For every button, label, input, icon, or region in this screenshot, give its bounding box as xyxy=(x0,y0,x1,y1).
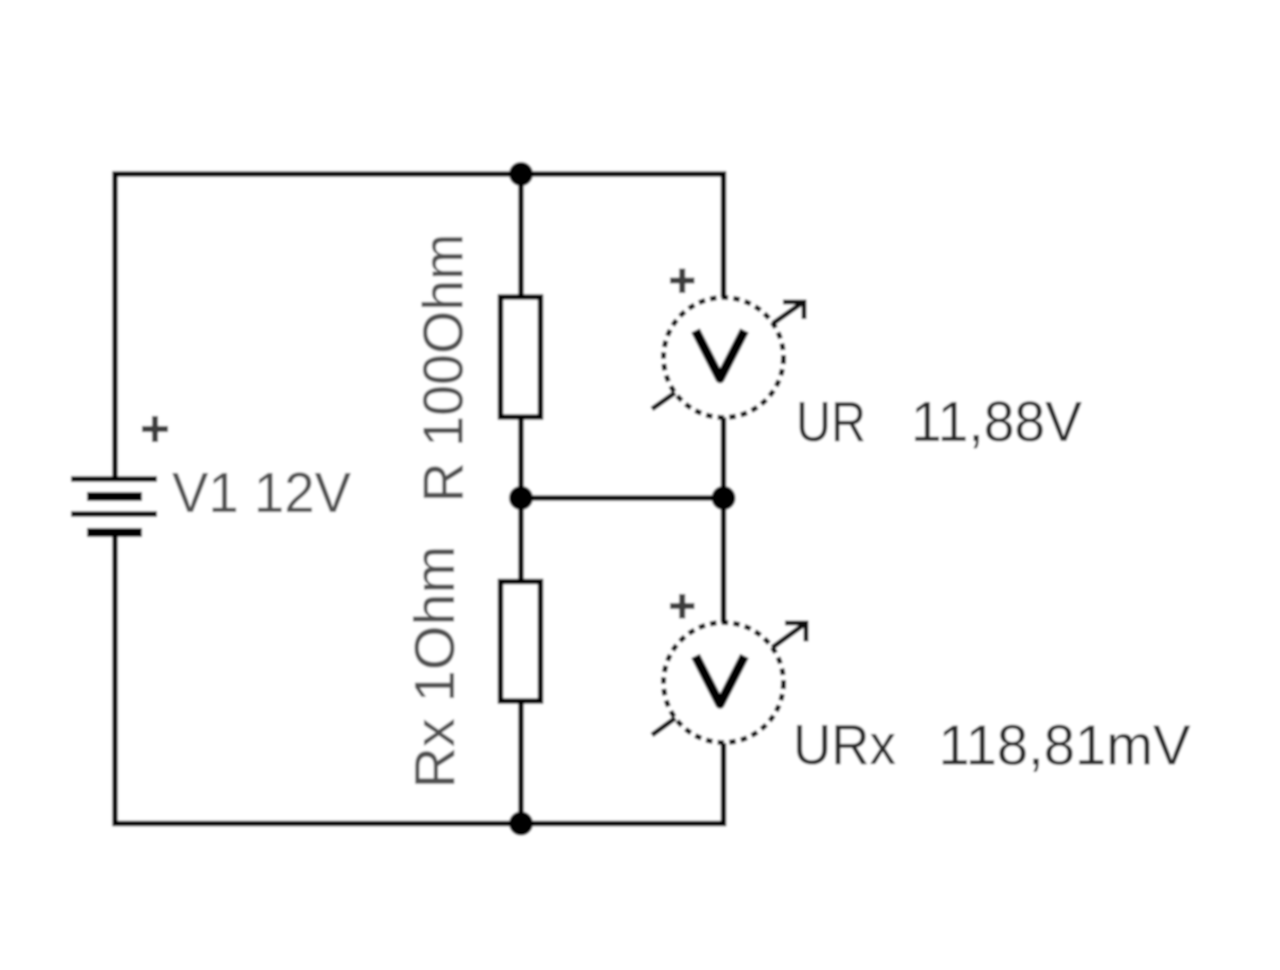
svg-text:V1 12V: V1 12V xyxy=(172,461,351,525)
svg-text:UR: UR xyxy=(796,390,866,454)
wire: middle horizontal between nodes xyxy=(521,495,724,501)
svg-text:URx: URx xyxy=(793,713,896,777)
battery V1 plate 3 (long positive) xyxy=(71,511,157,517)
voltmeter U2 V letter xyxy=(696,656,745,704)
junction node top xyxy=(509,162,533,186)
junction node middle left xyxy=(509,486,533,510)
junction node middle right xyxy=(712,486,736,510)
svg-text:11,88V: 11,88V xyxy=(911,390,1082,454)
voltmeter U1 V letter xyxy=(696,331,745,379)
junction node bottom xyxy=(509,812,533,836)
battery plus sign xyxy=(142,416,168,442)
arrow shaft across voltmeter U2 xyxy=(652,623,806,735)
wire: left + top + right drop to voltmeter U1 xyxy=(115,174,724,477)
voltmeter U1 plus sign xyxy=(670,269,695,294)
arrowhead of voltmeter U2 xyxy=(785,623,806,642)
svg-text:118,81mV: 118,81mV xyxy=(939,714,1191,778)
arrow shaft across voltmeter U1 xyxy=(652,302,804,410)
svg-text:R 100Ohm: R 100Ohm xyxy=(412,234,476,503)
voltmeter U2 body (dashed circle) xyxy=(664,623,784,743)
battery V1 plate 1 (long positive) xyxy=(71,476,157,482)
wire: left bottom + bottom + rise to voltmeter U2 xyxy=(115,535,724,824)
wire: top node to resistor R xyxy=(518,174,524,299)
battery V1 plate 2 (short thick negative) xyxy=(87,492,142,501)
voltmeter U2 plus sign xyxy=(670,594,695,619)
wire: resistor Rx to bottom node xyxy=(518,700,524,824)
resistor R body xyxy=(501,297,541,417)
wire: voltmeter U1 bottom to middle node to voltmeter U2 top xyxy=(721,416,727,624)
arrowhead of voltmeter U1 xyxy=(783,302,804,319)
wire: resistor R to resistor Rx through middle node xyxy=(518,416,524,583)
voltmeter U1 body (dashed circle) xyxy=(664,298,784,418)
battery V1 plate 4 (short thick negative) xyxy=(87,528,142,537)
svg-text:Rx 1Ohm: Rx 1Ohm xyxy=(403,546,467,789)
resistor Rx body xyxy=(501,582,541,702)
